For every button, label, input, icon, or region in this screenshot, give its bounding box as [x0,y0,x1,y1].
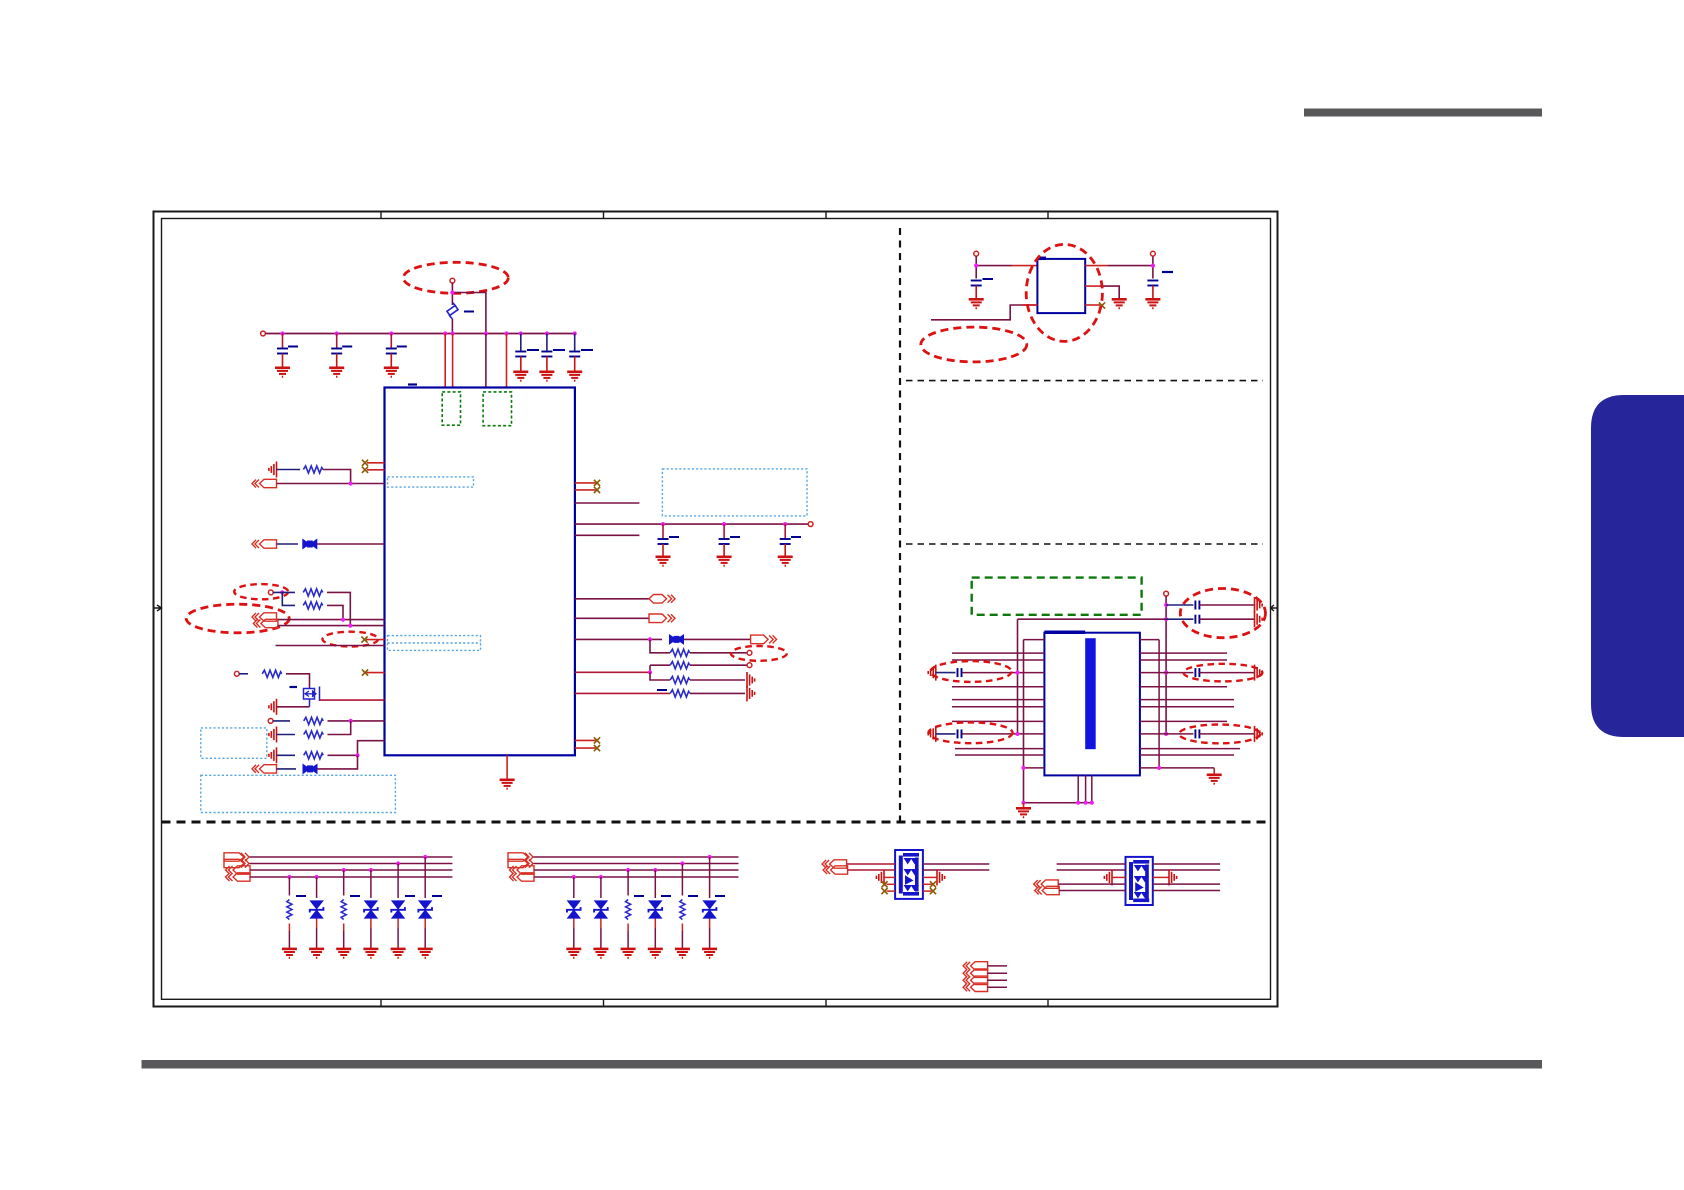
frame zone arrow left [154,605,162,611]
wire red seg [1022,304,1037,306]
input port PT5 [252,765,277,773]
regulator U2 [1037,259,1085,313]
wire [277,469,301,471]
chassis ground G12 [1255,726,1263,742]
nc stub pin [575,489,596,491]
wire gnd left [884,876,895,878]
nc stub [887,883,896,885]
wire 3V bus [575,523,808,525]
wire [327,592,350,625]
section divider vertical dashed [899,228,901,822]
wire [277,768,297,770]
refdes dash Q1 [290,686,298,688]
chassis ground G8 [1255,611,1263,627]
no-connect x [930,881,936,887]
resistor R5 [304,717,324,724]
resistor R6 [304,731,324,738]
transformer right pin wires [1140,640,1240,768]
resistor R13 [336,870,360,958]
wire IC ground pin [506,755,508,779]
input port PT2 [252,540,277,548]
esd array U4 [1126,857,1153,905]
cyan note box E [662,469,807,516]
chassis ground G3 [269,727,277,743]
double input port PT4 [253,619,278,627]
junction [287,875,291,879]
green highlight box pins B [483,392,511,426]
refdes dash U1 [408,383,417,385]
value dash [1162,271,1173,273]
cyan note box B (double row) [388,636,481,651]
markup ellipse E4 [323,632,379,647]
bus terminal P2 [261,331,266,336]
ground [1112,299,1127,308]
green note box [972,578,1142,615]
junction [1015,671,1019,675]
wire vertical left bus B [1023,640,1025,803]
core bar [1085,638,1096,749]
wire [650,665,670,672]
wire [273,720,290,722]
resistor R14 [621,870,644,958]
wire in top [1057,863,1126,865]
terminal P8 [747,663,752,668]
wire gate to IC [320,699,385,701]
wire [317,755,357,769]
value dash [464,311,474,313]
junction [450,290,454,294]
wire red [1012,265,1037,267]
schematic frame inner [162,219,1271,1000]
input port PT17 [822,860,847,868]
top-right gray bar [1304,109,1542,117]
no-connect x [594,745,600,751]
wire [277,754,296,756]
capacitor C3 [384,334,407,377]
main controller U1 [385,388,575,756]
wire VCC pins into IC [444,334,446,388]
chassis ground G4 [269,747,277,763]
junction [661,522,665,526]
wire [690,692,745,694]
wire [328,741,385,756]
junction [648,670,652,674]
capacitor C11 [1145,281,1160,309]
wire [485,334,487,388]
wire out [1153,890,1220,892]
junction [315,875,319,879]
resistor R3 [303,602,323,609]
output port PT7 [649,614,675,623]
wire gnd right [1153,876,1169,878]
terminal P7 [747,650,752,655]
wire [278,625,385,627]
wire [690,664,747,666]
markup ellipse E10 [929,722,1013,743]
wire vertical right bus [1165,596,1167,734]
output port PT14 [508,859,533,867]
wire [575,617,649,619]
junction [708,855,712,859]
wire out [1153,869,1220,871]
nc stub [923,890,932,892]
input port PT20 [1035,886,1060,894]
junction [348,624,352,628]
ferrite bead FB1 [303,540,317,549]
junction [1164,732,1168,736]
frame zone ticks top [381,212,1048,219]
junction [349,719,353,723]
power terminal P1 [450,278,455,283]
wire out [1153,883,1220,885]
cyan note box A [388,477,474,487]
wire [690,652,747,654]
wire [1059,890,1125,892]
wire [650,672,670,680]
junction [341,618,345,622]
wire [239,673,248,675]
junction [626,868,630,872]
input port PT23 [963,976,988,984]
section divider horizontal dashed main [162,821,1271,824]
terminal P4 [234,671,239,676]
junction [355,753,359,757]
schematic frame outer [154,212,1278,1007]
bottom gray bar [142,1060,1543,1069]
resistor R7 [304,752,324,759]
chassis ground G2 [269,699,277,715]
wire to ground right [1213,768,1215,774]
markup ellipse E8 [1180,589,1265,638]
wire stub [575,534,640,536]
pin1 notch [1044,630,1085,634]
ground [1016,808,1031,817]
capacitor C10 [969,279,993,308]
capacitor C17 [1195,729,1199,738]
wire [278,619,385,621]
no-connect x [594,737,600,743]
markup ellipse E6 [1026,244,1102,341]
transistor Q1 [304,687,320,707]
section divider dashed right lower [906,543,1263,545]
ground [500,780,515,789]
input port PT12 [226,873,251,881]
wire [690,679,745,681]
chassis ground G6 [747,685,755,701]
output port PT13 [508,853,533,861]
junction [369,868,373,872]
markup ellipse E2 [234,584,288,599]
nc stub pin [575,739,596,741]
wire [575,638,662,640]
capacitor C4 [513,334,539,381]
nc stub pin [367,672,385,674]
resistor R11 [670,690,690,697]
chassis ground G13 [876,869,884,885]
wire [650,639,670,652]
transformer left pin wires [952,640,1044,768]
tvs diode D1 [309,877,324,958]
wire [847,863,896,865]
junction [280,590,284,594]
output port PT9 [224,853,249,861]
capacitor C1 [275,334,298,377]
wire [277,483,385,485]
wire [327,605,343,619]
frame zone arrow right [1271,605,1278,611]
bus wires [534,857,739,877]
capacitor C8 [717,524,740,566]
junction [1076,801,1080,805]
junction [1090,801,1094,805]
no-connect x [594,480,600,486]
wire [286,674,310,687]
markup ellipse E9 [931,661,1012,682]
cyan note box D [201,775,396,812]
input port PT15 [510,866,535,874]
junction [1015,732,1019,736]
junction [648,637,652,641]
nc stub pin [367,462,385,464]
wire in top2 [1057,869,1126,871]
terminal P5 [268,719,273,724]
wires [988,966,1007,987]
junction [1164,617,1168,621]
wire [506,334,508,388]
resistor R4 [262,670,282,677]
pin1 notch [1037,257,1046,261]
markup ellipse E12 [1179,725,1260,744]
nc stub pin [575,747,596,749]
capacitor C14 [936,668,962,677]
junction [653,868,657,872]
wire [277,543,299,545]
wire (dead end) [276,645,385,647]
input port PT1 [252,479,277,487]
wire vertical left bus A [1017,619,1019,734]
capacitor C16 [1195,668,1199,677]
chassis ground G5 [747,672,755,688]
wire [328,720,385,722]
junction [572,875,576,879]
junction [349,481,353,485]
nc stub pin [366,639,385,641]
terminal P6 [808,522,813,527]
capacitor C6 [567,334,593,381]
chassis ground G7 [1255,597,1263,613]
wire [277,734,296,736]
chassis ground G11 [1255,665,1263,681]
wire [1058,883,1125,885]
chassis ground G1 [269,462,277,478]
double input port PT3 [252,613,277,621]
wire gnd pin [1085,285,1100,287]
wire [451,283,453,305]
fuse F1 [447,303,458,320]
wire [452,293,486,334]
terminal P3 [268,590,273,595]
ferrite bead FB2 [303,764,317,773]
wire stub [575,502,640,504]
capacitor C12 [1166,601,1254,610]
capacitor C2 [329,334,352,377]
markup ellipse E1 [403,262,508,293]
capacitor C13 [1166,615,1254,624]
chassis ground G9 [928,665,936,681]
junction [722,522,726,526]
chassis ground G15 [1104,869,1112,885]
input port PT18 [823,866,848,874]
junction [1084,801,1088,805]
wire [575,598,649,600]
right blue tab [1591,395,1684,737]
wire out [1153,863,1220,865]
wire [273,592,295,605]
junction [396,861,400,865]
no-connect x [881,881,887,887]
junction [1164,603,1168,607]
wire vertical right inner bus [1158,640,1160,768]
wire [848,869,896,871]
tvs diode D4 [418,857,442,958]
no-connect x [881,888,887,894]
tvs diode D2 [363,870,378,958]
resistor R1 [303,466,323,473]
power bus wire [265,333,575,335]
junction [342,868,346,872]
chassis ground G10 [928,726,936,742]
wire [1108,256,1153,279]
terminal P11 [1164,591,1169,596]
cyan note box C [201,728,267,758]
wire [323,470,351,484]
wire [1023,803,1025,808]
no-connect x [362,460,368,466]
nc stub pin [575,482,596,484]
transformer T1 body [1044,633,1140,776]
esd array U3 [895,850,923,899]
output port PT6 (hex) [649,595,675,604]
no-connect x [594,487,600,493]
junction [423,855,427,859]
wire out [923,863,989,865]
junction [1021,801,1025,805]
no-connect x [1099,302,1105,308]
output port PT8 [751,635,777,644]
tvs diode D5 [566,877,581,958]
wire [976,256,1012,279]
junction dots on bus [280,331,284,335]
tvs diode D3 [391,864,415,958]
markup ellipse E3 [186,604,289,633]
chassis ground G16 [1169,869,1177,885]
resistor R15 [675,864,698,958]
ground [1207,775,1222,784]
tvs diode D7 [648,870,671,958]
no-connect x [930,888,936,894]
wire [317,543,385,545]
nc stub [887,890,896,892]
ferrite bead FB3 [670,635,684,644]
wire horizontal to left bus [1018,618,1167,620]
section divider dashed right upper [906,380,1263,382]
junction [1164,671,1168,675]
wire [1199,672,1254,674]
markup ellipse E5 [731,646,787,661]
wire pin [575,692,670,694]
no-connect x [362,670,368,676]
junction [1021,766,1025,770]
bus wires [250,857,453,877]
resistor R8 [670,649,690,656]
junction [1157,766,1161,770]
input port PT24 [963,983,988,991]
output port PT10 [224,859,249,867]
green highlight box pins A [442,392,460,425]
resistor R12 [282,877,306,958]
wire gnd [1112,876,1126,878]
wire [684,638,751,640]
input port PT19 [1034,880,1059,888]
wire pin [575,671,650,673]
tvs diode D6 [593,877,608,958]
terminal P10 [1151,251,1156,256]
capacitor C5 [539,334,565,381]
wire out [923,869,989,871]
junction [1151,264,1155,268]
wire enable pin [931,305,1037,320]
wire [277,706,310,708]
junction [974,264,978,268]
value dash [657,689,667,691]
wire [328,721,351,735]
terminal P9 [974,251,979,256]
junction [599,875,603,879]
input port PT16 [510,873,535,881]
no-connect x [362,467,368,473]
capacitor C15 [936,729,962,738]
resistor R10 [670,676,690,683]
nc stub pin [1085,304,1100,306]
wire [452,334,454,388]
markup ellipse E7 [921,327,1027,362]
input port PT22 [963,969,988,977]
wire gnd right [923,876,937,878]
capacitor C7 [656,524,680,566]
tvs diode D8 [702,857,725,958]
nc stub [923,883,932,885]
capacitor C9 [778,524,801,566]
frame zone ticks bottom [381,999,1048,1006]
resistor R2 [303,589,323,596]
chassis ground G14 [937,869,945,885]
wire [1199,733,1254,735]
transformer bottom pins [1024,775,1092,802]
junction [680,861,684,865]
markup ellipse E11 [1183,664,1262,682]
wire red out [1085,265,1108,267]
wire [1100,286,1119,298]
resistor R9 [670,662,690,669]
input port PT21 [963,962,988,970]
no-connect x [361,637,367,643]
input port PT11 [226,866,251,874]
junction [783,522,787,526]
nc stub pin [367,469,385,471]
